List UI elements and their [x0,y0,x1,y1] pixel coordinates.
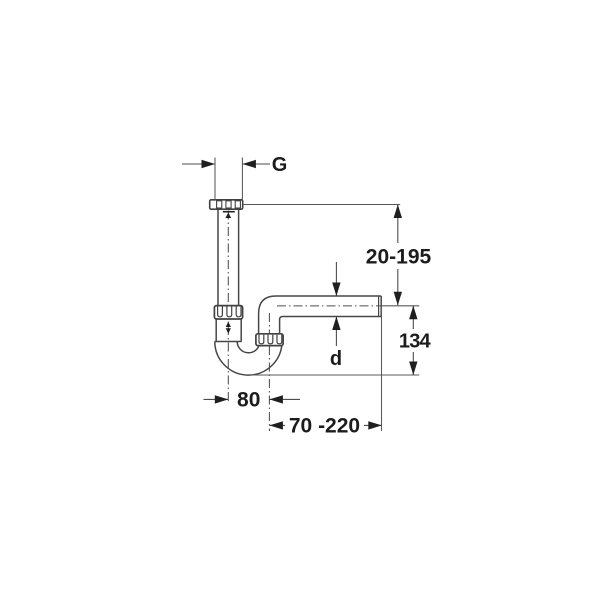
134 dimension line lower part [412,352,414,375]
G dimension left arrow [182,163,215,165]
G dimension extension line left [214,158,216,200]
adjustment diamond mark on inlet centerline [226,322,231,327]
20-195 dimension line upper part [397,205,399,244]
G dimension right arrow [242,163,270,165]
bottom extension line from trap to 134 dimension [251,374,419,376]
extension line from top nut to 20-195 dimension [243,204,400,206]
horizontal pipe centerline [277,305,381,307]
extension line below pipe end for 70-220 [381,306,383,431]
vertical inlet pipe left wall [217,209,219,307]
lower left coupling nut [214,306,242,319]
right coupling nut [256,334,283,346]
d dimension top arrow [332,283,340,297]
d dimension bottom arrow line [335,317,337,346]
extension line from pipe mid to 134 dimension [382,305,419,307]
134 dimension line upper part [412,306,414,329]
outlet riser and horizontal pipe inner contour [280,317,382,343]
20-195 dimension line lower part [397,269,399,305]
horizontal pipe end inner line [378,297,380,316]
inlet pipe centerline [227,211,229,405]
top nut G [210,200,243,209]
20-195 up arrow [394,205,402,219]
70-220 left arrow [269,421,283,429]
svg-text:80: 80 [237,389,260,412]
134 down arrow [409,362,417,376]
adjustment up arrow under top nut [225,213,231,218]
d dimension bottom arrow [332,317,340,331]
134 up arrow [409,306,417,320]
adjustment down arrow on inlet centerline [226,328,231,333]
vertical inlet pipe right wall [238,209,240,307]
adjustment tick bar under top nut [223,211,235,213]
80 dimension right arrow line [270,398,300,400]
80 dimension right arrow [269,395,283,403]
80 dimension left arrow line [204,398,229,400]
U-bend trap body inner arc [237,342,260,353]
outlet riser and horizontal pipe outer contour [259,296,382,342]
svg-text:d: d [330,348,342,370]
80 dimension left arrow [215,395,229,403]
riser centerline [268,313,270,431]
trap inlet sleeve right wall [240,319,242,342]
U-bend trap body outer arc [215,342,282,376]
svg-text:70 -220: 70 -220 [289,415,360,438]
U-bend rim joint line [215,341,242,343]
horizontal pipe end cap [380,296,382,317]
70-220 dimension line right part [364,424,382,426]
svg-text:134: 134 [399,330,432,352]
70-220 dimension line left part [269,424,285,426]
trap inlet sleeve left wall [215,319,217,342]
svg-text:20-195: 20-195 [366,246,432,269]
G dimension extension line right [241,158,243,200]
20-195 down arrow [394,292,402,306]
70-220 right arrow [368,421,382,429]
svg-text:G: G [272,154,288,176]
d dimension top arrow line [335,262,337,296]
